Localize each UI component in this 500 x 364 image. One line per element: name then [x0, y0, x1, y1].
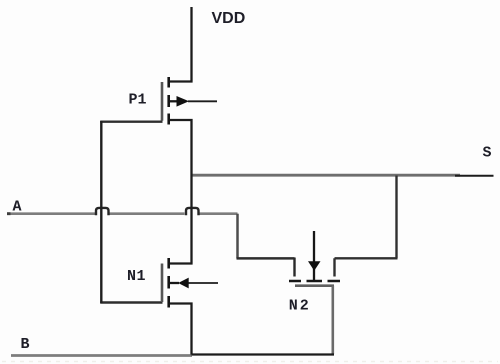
svg-text:S: S: [483, 145, 492, 162]
svg-text:N1: N1: [127, 268, 146, 285]
svg-text:P1: P1: [129, 92, 147, 109]
svg-text:VDD: VDD: [212, 10, 246, 27]
svg-text:N2: N2: [289, 298, 311, 315]
svg-text:A: A: [13, 199, 22, 216]
svg-text:B: B: [21, 336, 30, 353]
